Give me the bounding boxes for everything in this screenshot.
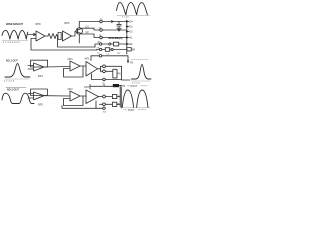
svg-text:0 .5 1.0: 0 .5 1.0 xyxy=(122,17,130,19)
svg-text:OP9: OP9 xyxy=(35,22,41,26)
svg-text:OP6: OP6 xyxy=(64,21,70,25)
svg-text:POUT: POUT xyxy=(128,109,135,112)
svg-text:4049UBE(A): 4049UBE(A) xyxy=(108,36,123,40)
svg-text:NO.1 OUT: NO.1 OUT xyxy=(6,59,18,62)
svg-text:AP1: AP1 xyxy=(85,57,90,61)
svg-text:OP2: OP2 xyxy=(68,87,74,91)
svg-text:NO.2 OUT: NO.2 OUT xyxy=(7,88,19,91)
svg-text:OP1: OP1 xyxy=(68,57,74,61)
svg-text:BP2: BP2 xyxy=(38,103,43,107)
svg-text:BP1: BP1 xyxy=(38,74,43,78)
svg-text:0 .2 .4 .6 .8 1.0 1.2: 0 .2 .4 .6 .8 1.0 1.2 xyxy=(3,42,21,44)
svg-text:AP2: AP2 xyxy=(84,85,89,89)
svg-text:NOUT: NOUT xyxy=(131,85,138,88)
svg-text:WAVE GEN OUT: WAVE GEN OUT xyxy=(6,23,24,26)
svg-text:0 .2 .4 .6 .8: 0 .2 .4 .6 .8 xyxy=(4,81,15,83)
svg-text:PZ: PZ xyxy=(122,85,126,88)
